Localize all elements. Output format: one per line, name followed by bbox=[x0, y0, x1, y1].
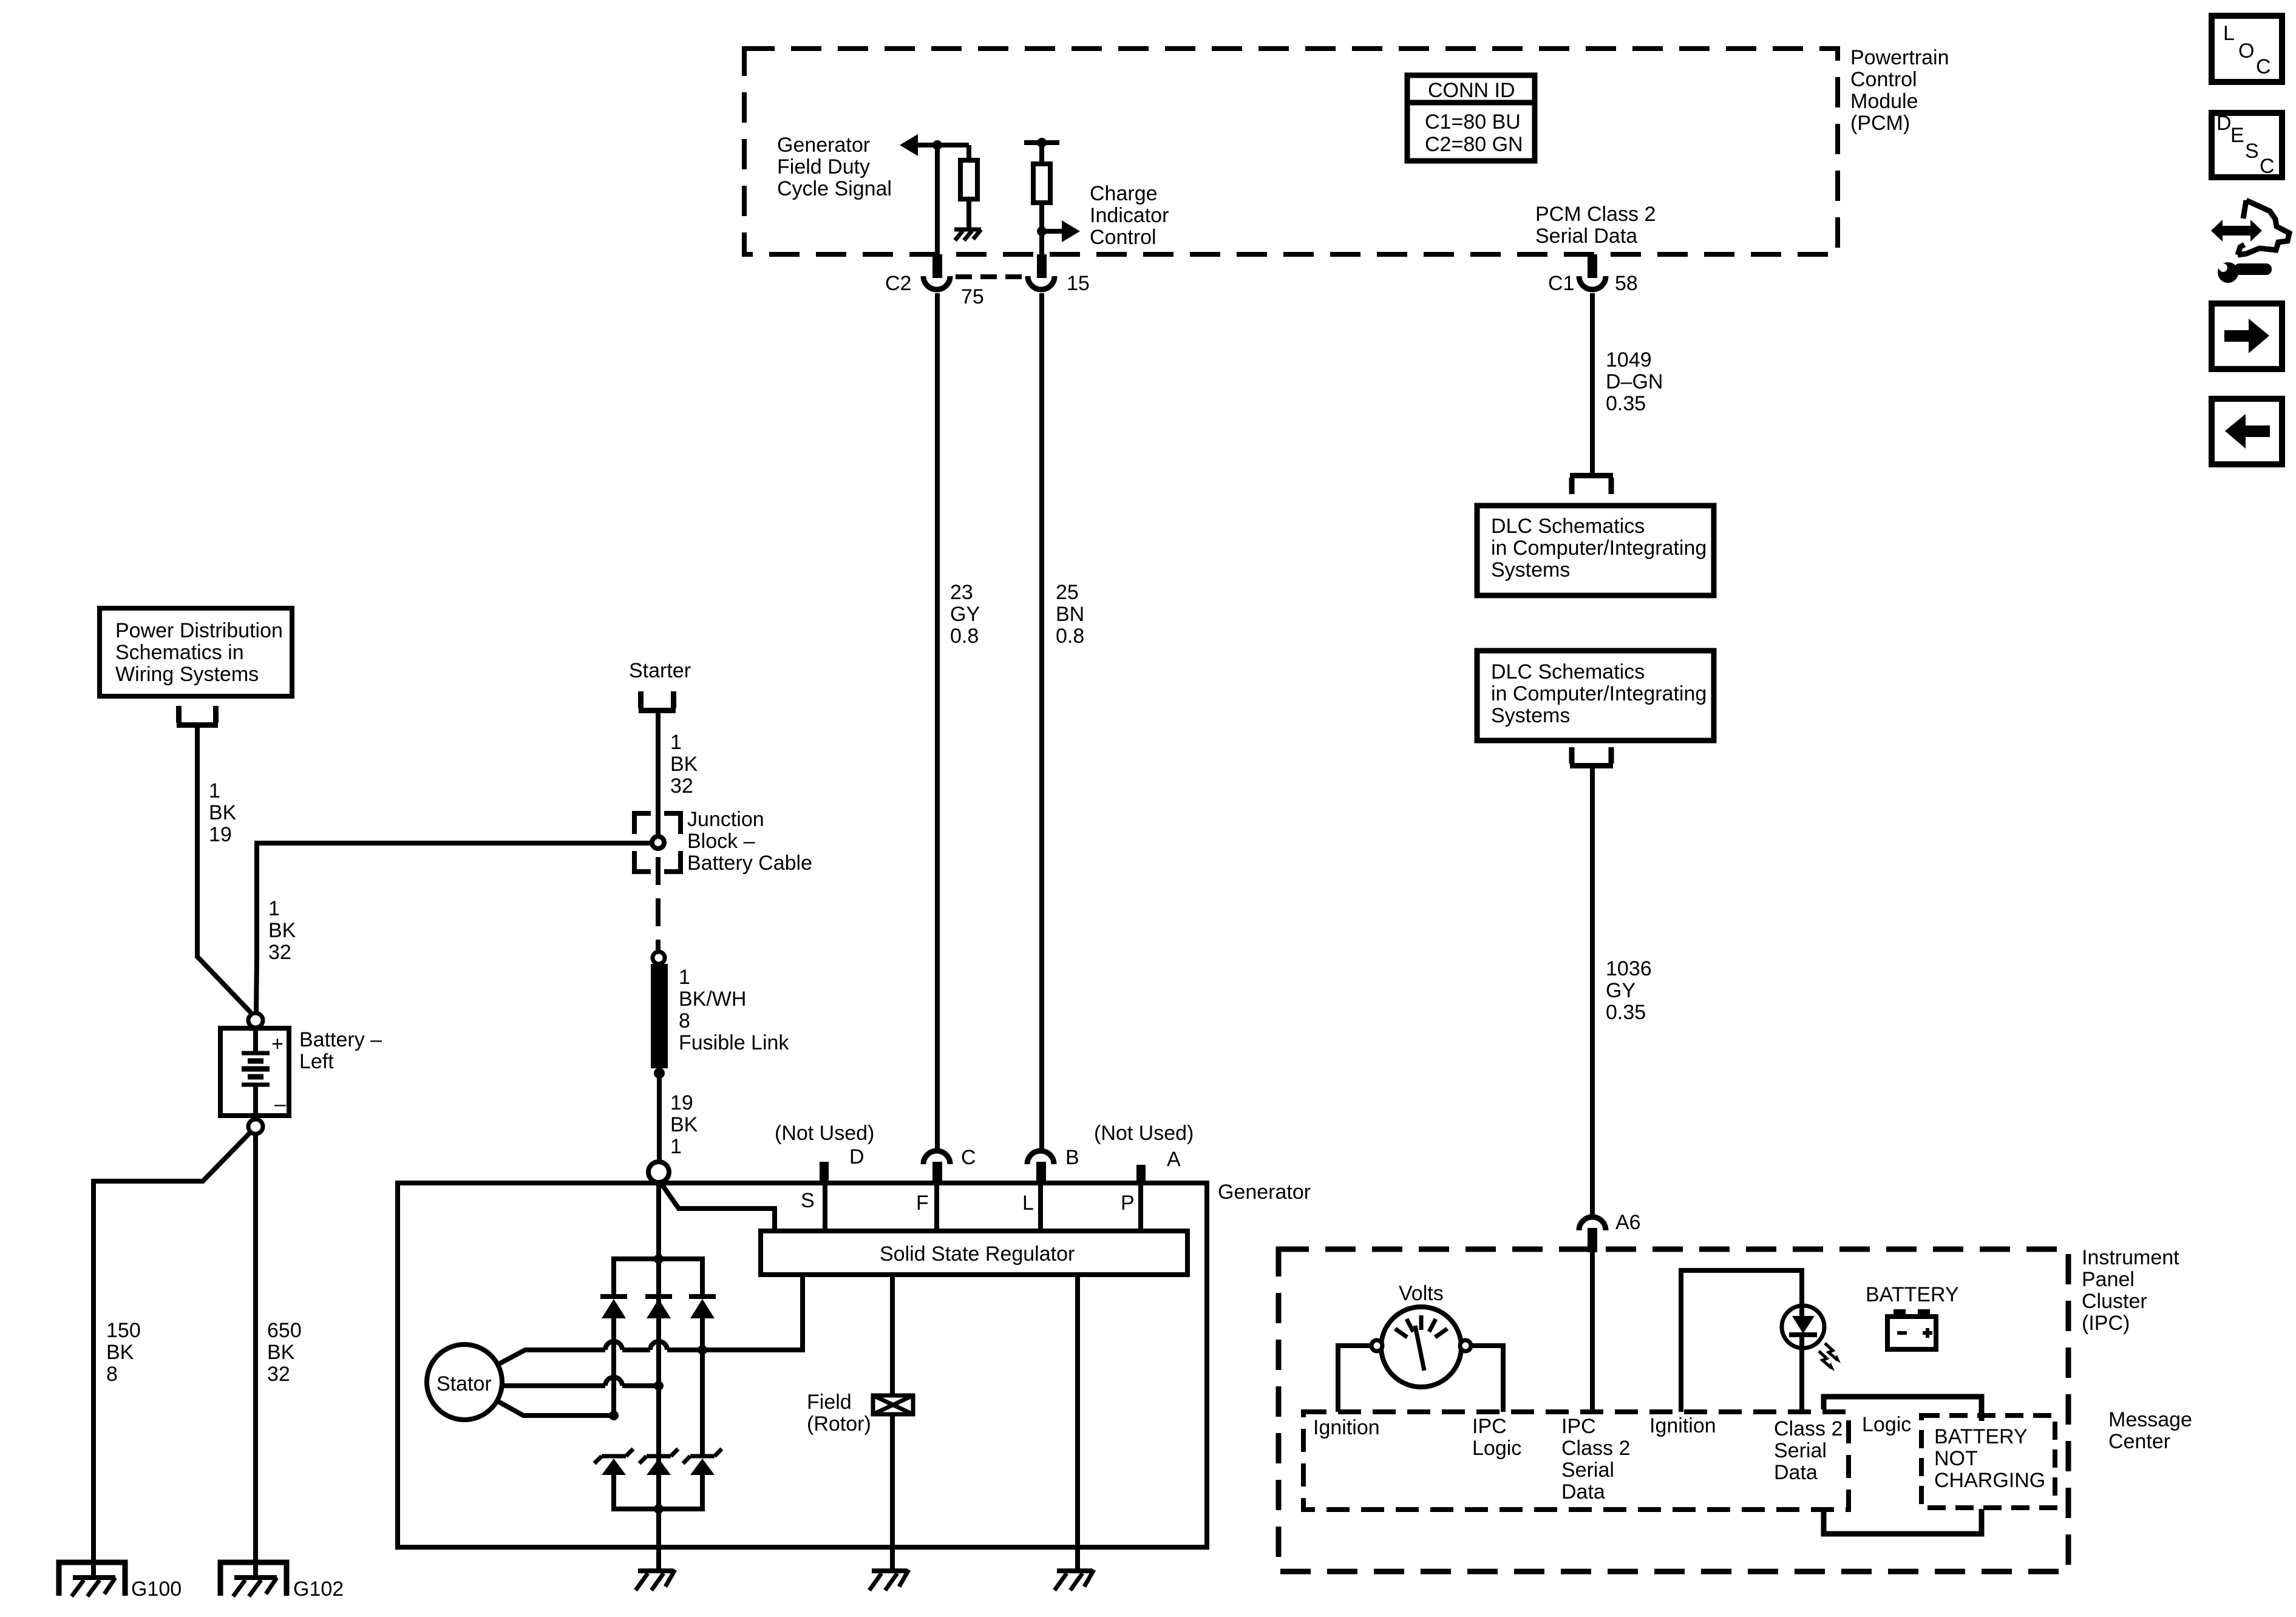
svg-text:(IPC): (IPC) bbox=[2082, 1312, 2130, 1335]
stator bbox=[427, 1344, 502, 1420]
svg-text:Center: Center bbox=[2108, 1430, 2170, 1453]
connector A6 (IPC) bbox=[1579, 1217, 1606, 1252]
dashed connector link C2-15 bbox=[956, 274, 1025, 279]
svg-text:(PCM): (PCM) bbox=[1850, 112, 1910, 135]
wire 650 BK 32 bbox=[253, 1134, 258, 1576]
icon vehicle-wrench bbox=[2211, 200, 2289, 283]
svg-text:75: 75 bbox=[961, 285, 984, 308]
svg-text:23: 23 bbox=[950, 581, 973, 604]
svg-text:D: D bbox=[2216, 112, 2232, 135]
svg-text:Charge: Charge bbox=[1090, 182, 1158, 205]
ground G102 bbox=[220, 1562, 344, 1601]
wire 150 BK 8 bbox=[93, 1132, 251, 1576]
svg-text:Cycle Signal: Cycle Signal bbox=[777, 177, 892, 200]
fusible link bbox=[651, 964, 668, 1068]
DLC Schematics box 1 bbox=[1477, 506, 1714, 595]
wire LED to Class 2 Serial Data bbox=[1799, 1348, 1804, 1412]
svg-text:CONN ID: CONN ID bbox=[1428, 79, 1515, 102]
off-page bracket (power distribution) bbox=[177, 706, 218, 725]
pin D (not used) bbox=[820, 1162, 829, 1183]
wire A6 to sub-box bbox=[1590, 1252, 1595, 1412]
label Message Center bbox=[2108, 1408, 2192, 1453]
svg-text:Starter: Starter bbox=[629, 659, 691, 682]
svg-text:1: 1 bbox=[679, 966, 690, 989]
svg-text:Systems: Systems bbox=[1491, 558, 1570, 581]
svg-text:C2: C2 bbox=[885, 272, 911, 295]
svg-text:BK: BK bbox=[268, 919, 296, 942]
CONN ID table bbox=[1407, 75, 1535, 161]
PCM dashed box bbox=[744, 49, 1838, 254]
svg-text:O: O bbox=[2238, 39, 2254, 63]
label Battery - Left bbox=[299, 1028, 382, 1073]
svg-text:Ignition: Ignition bbox=[1313, 1416, 1380, 1439]
DLC Schematics box 2 bbox=[1477, 651, 1714, 741]
connector pin 15 bbox=[1028, 254, 1055, 290]
resistor R-field bbox=[960, 160, 977, 199]
svg-text:(Rotor): (Rotor) bbox=[807, 1412, 871, 1436]
arrow out (Generator Field Duty Cycle Signal) bbox=[900, 134, 969, 156]
svg-text:E: E bbox=[2230, 124, 2244, 147]
svg-text:Wiring Systems: Wiring Systems bbox=[115, 663, 259, 686]
svg-text:G100: G100 bbox=[131, 1578, 182, 1601]
svg-text:Instrument: Instrument bbox=[2082, 1246, 2179, 1269]
svg-text:Systems: Systems bbox=[1491, 704, 1570, 727]
off-page bracket into DLC box 1 bbox=[1570, 476, 1613, 495]
svg-text:BK/WH: BK/WH bbox=[679, 988, 746, 1011]
wire battery+ to junction block bbox=[257, 841, 652, 846]
svg-text:Power Distribution: Power Distribution bbox=[115, 619, 283, 642]
svg-text:Stator: Stator bbox=[436, 1372, 492, 1395]
arrow out (Charge Indicator Control) bbox=[1042, 220, 1080, 242]
svg-text:1: 1 bbox=[670, 731, 682, 754]
svg-text:Generator: Generator bbox=[1218, 1181, 1311, 1204]
svg-text:A6: A6 bbox=[1615, 1211, 1641, 1234]
svg-text:BK: BK bbox=[106, 1341, 134, 1364]
connector C1 pin 58 bbox=[1579, 254, 1606, 290]
svg-text:DLC Schematics: DLC Schematics bbox=[1491, 660, 1645, 683]
svg-text:Panel: Panel bbox=[2082, 1268, 2135, 1291]
svg-text:IPC: IPC bbox=[1561, 1415, 1596, 1438]
node bottom bus junction bbox=[654, 1504, 664, 1514]
wire to ground 1 bbox=[656, 1509, 661, 1572]
svg-text:in Computer/Integrating: in Computer/Integrating bbox=[1491, 682, 1707, 705]
battery icon bbox=[1887, 1309, 1936, 1349]
Generator box bbox=[398, 1183, 1207, 1547]
svg-text:Cluster: Cluster bbox=[2082, 1290, 2147, 1313]
fusible link bottom node bbox=[654, 1068, 665, 1079]
svg-text:in Computer/Integrating: in Computer/Integrating bbox=[1491, 537, 1707, 560]
label Generator Field Duty Cycle Signal bbox=[777, 134, 892, 200]
svg-text:Data: Data bbox=[1561, 1480, 1605, 1503]
terminal F line bbox=[934, 1183, 939, 1231]
svg-text:Data: Data bbox=[1774, 1461, 1818, 1484]
svg-text:C2=80 GN: C2=80 GN bbox=[1425, 133, 1523, 156]
svg-text:Left: Left bbox=[299, 1050, 334, 1073]
connector C2 pin 75 bbox=[923, 254, 950, 290]
volt gauge bbox=[1371, 1307, 1471, 1387]
IPC label bbox=[2082, 1246, 2179, 1335]
B+ sense wire to regulator bbox=[662, 1184, 775, 1231]
off-page bracket out of DLC box 2 bbox=[1570, 747, 1613, 766]
wire C2-75 inside PCM bbox=[935, 145, 940, 258]
IPC dashed box bbox=[1279, 1249, 2068, 1571]
svg-text:19: 19 bbox=[670, 1091, 693, 1114]
svg-text:S: S bbox=[2245, 140, 2259, 163]
svg-text:P: P bbox=[1121, 1192, 1135, 1215]
svg-text:Field: Field bbox=[807, 1391, 852, 1414]
svg-text:Solid State Regulator: Solid State Regulator bbox=[880, 1242, 1075, 1266]
label Charge Indicator Control bbox=[1090, 182, 1169, 249]
diode D1 (upper left) bbox=[600, 1297, 627, 1415]
label PCM Class 2 Serial Data bbox=[1535, 203, 1656, 248]
battery box bbox=[220, 1028, 289, 1116]
stator phase 2 wire bbox=[502, 1377, 664, 1391]
label IPC Logic bbox=[1472, 1415, 1521, 1460]
svg-text:8: 8 bbox=[106, 1363, 118, 1386]
svg-text:D–GN: D–GN bbox=[1606, 370, 1663, 393]
svg-text:58: 58 bbox=[1615, 272, 1638, 295]
svg-text:PCM Class 2: PCM Class 2 bbox=[1535, 203, 1656, 226]
svg-text:C1=80 BU: C1=80 BU bbox=[1425, 110, 1521, 134]
svg-text:Field Duty: Field Duty bbox=[777, 155, 870, 178]
fusible link top circle bbox=[653, 952, 665, 964]
connector C (generator F) bbox=[923, 1151, 950, 1183]
wire gauge right to IPC Logic bbox=[1471, 1346, 1503, 1412]
svg-text:D: D bbox=[849, 1145, 864, 1168]
svg-text:BK: BK bbox=[209, 801, 237, 824]
label Junction Block - Battery Cable bbox=[687, 808, 812, 875]
icon DESC box bbox=[2212, 112, 2282, 178]
svg-text:Class 2: Class 2 bbox=[1774, 1417, 1843, 1440]
svg-text:Serial: Serial bbox=[1774, 1439, 1827, 1462]
svg-text:Junction: Junction bbox=[687, 808, 764, 831]
svg-text:Ignition: Ignition bbox=[1649, 1414, 1716, 1437]
svg-text:0.8: 0.8 bbox=[950, 625, 979, 648]
label Field (Rotor) bbox=[807, 1391, 871, 1436]
field rotor winding symbol bbox=[873, 1275, 913, 1572]
svg-text:(Not Used): (Not Used) bbox=[775, 1122, 874, 1145]
wire 1 BK 19 bbox=[197, 728, 251, 1012]
node junction on C2-75 wire bbox=[932, 140, 942, 150]
wire 23 GY 0.8 bbox=[935, 293, 940, 1150]
svg-text:BK: BK bbox=[670, 1113, 698, 1136]
svg-text:Serial: Serial bbox=[1561, 1459, 1614, 1482]
wire gauge left to Ignition bbox=[1338, 1346, 1371, 1412]
B+ output terminal circle bbox=[648, 1162, 669, 1182]
BATTERY NOT CHARGING message box bbox=[1921, 1415, 2055, 1508]
ground G100 bbox=[59, 1562, 182, 1601]
svg-text:25: 25 bbox=[1056, 581, 1079, 604]
svg-text:0.35: 0.35 bbox=[1606, 392, 1646, 415]
svg-text:Module: Module bbox=[1850, 90, 1918, 113]
svg-text:32: 32 bbox=[268, 941, 291, 964]
wire 25 BN 0.8 bbox=[1039, 293, 1044, 1150]
junction block corner brackets bbox=[634, 813, 681, 872]
svg-text:B: B bbox=[1065, 1146, 1079, 1169]
svg-text:C: C bbox=[961, 1146, 976, 1169]
svg-text:150: 150 bbox=[106, 1319, 141, 1342]
stator phase 3 wire bbox=[497, 1401, 619, 1420]
svg-text:8: 8 bbox=[679, 1009, 690, 1032]
svg-text:L: L bbox=[2223, 22, 2235, 45]
zener Z1 (lower left) bbox=[594, 1449, 633, 1509]
off-page bracket (starter) bbox=[639, 691, 676, 711]
svg-text:15: 15 bbox=[1067, 272, 1090, 295]
Logic box bbox=[1824, 1397, 1982, 1534]
pin A (not used) bbox=[1136, 1165, 1146, 1183]
zener Z3 (lower right) bbox=[683, 1449, 722, 1509]
node on rail bbox=[1037, 138, 1047, 147]
wire 1036 GY 0.35 bbox=[1590, 768, 1595, 1215]
IPC inner dashed sub-box bbox=[1303, 1412, 1849, 1510]
svg-text:1: 1 bbox=[268, 897, 280, 920]
terminal L line bbox=[1038, 1183, 1043, 1231]
svg-text:Message: Message bbox=[2108, 1408, 2192, 1431]
LED emission arrows bbox=[1819, 1343, 1841, 1371]
svg-text:Class 2: Class 2 bbox=[1561, 1437, 1630, 1460]
Power Distribution box bbox=[100, 608, 292, 696]
svg-text:Logic: Logic bbox=[1862, 1413, 1911, 1436]
svg-text:BK: BK bbox=[670, 753, 698, 776]
rectifier top bus bbox=[614, 1259, 702, 1294]
dashed wire below junction block bbox=[656, 849, 661, 952]
resistor R-lamp lead bbox=[1039, 143, 1044, 164]
svg-text:0.8: 0.8 bbox=[1056, 625, 1084, 648]
svg-text:Schematics in: Schematics in bbox=[115, 641, 244, 664]
svg-text:A: A bbox=[1167, 1148, 1181, 1171]
svg-text:(Not Used): (Not Used) bbox=[1094, 1122, 1194, 1145]
connector B (generator L) bbox=[1027, 1151, 1054, 1183]
icon right-arrow box bbox=[2212, 303, 2282, 369]
rectifier bottom bus bbox=[614, 1475, 702, 1509]
svg-text:BN: BN bbox=[1056, 603, 1084, 626]
zener Z2 (lower mid) bbox=[639, 1449, 678, 1475]
svg-text:BATTERY: BATTERY bbox=[1934, 1425, 2028, 1448]
svg-text:BK: BK bbox=[267, 1341, 295, 1364]
wire 19 BK 1 bbox=[657, 1073, 662, 1161]
ground (regulator) bbox=[1055, 1570, 1094, 1590]
svg-text:19: 19 bbox=[209, 823, 232, 846]
svg-text:Powertrain: Powertrain bbox=[1850, 46, 1949, 69]
svg-text:NOT: NOT bbox=[1934, 1447, 1978, 1470]
node charge indicator bbox=[1037, 226, 1047, 236]
svg-text:C1: C1 bbox=[1548, 272, 1574, 295]
wire 1 BK 32 (battery+) bbox=[254, 841, 259, 957]
stator phase 1 wire bbox=[498, 1275, 803, 1364]
diode D2 (upper mid) bbox=[645, 1297, 672, 1318]
svg-text:Battery –: Battery – bbox=[299, 1028, 382, 1051]
resistor R-lamp bbox=[1033, 164, 1050, 203]
ground (PCM internal) bbox=[954, 229, 981, 240]
svg-text:Fusible Link: Fusible Link bbox=[679, 1031, 789, 1054]
icon LOC box bbox=[2212, 16, 2282, 82]
ground (field) bbox=[869, 1570, 909, 1590]
svg-text:Control: Control bbox=[1090, 226, 1156, 249]
svg-text:CHARGING: CHARGING bbox=[1934, 1469, 2045, 1492]
ground (generator main) bbox=[636, 1570, 675, 1590]
svg-text:C: C bbox=[2256, 55, 2271, 78]
svg-text:Indicator: Indicator bbox=[1090, 204, 1169, 227]
svg-text:G102: G102 bbox=[293, 1578, 344, 1601]
battery cell symbol bbox=[242, 1028, 286, 1116]
svg-text:Battery Cable: Battery Cable bbox=[687, 852, 812, 875]
svg-text:GY: GY bbox=[1606, 979, 1635, 1002]
svg-text:IPC: IPC bbox=[1472, 1415, 1507, 1438]
terminal P line bbox=[1138, 1183, 1143, 1231]
svg-text:F: F bbox=[916, 1192, 929, 1215]
svg-text:Generator: Generator bbox=[777, 134, 870, 157]
svg-text:BATTERY: BATTERY bbox=[1866, 1283, 1959, 1306]
LED charge indicator bbox=[1782, 1306, 1824, 1348]
svg-text:Serial Data: Serial Data bbox=[1535, 225, 1637, 248]
svg-text:C: C bbox=[2260, 155, 2275, 178]
svg-text:650: 650 bbox=[267, 1319, 302, 1342]
svg-text:+: + bbox=[271, 1032, 284, 1056]
svg-text:GY: GY bbox=[950, 603, 980, 626]
svg-text:1036: 1036 bbox=[1606, 957, 1652, 980]
battery - terminal circle bbox=[248, 1119, 263, 1134]
svg-text:0.35: 0.35 bbox=[1606, 1001, 1646, 1024]
rail stub (charge indicator branch) bbox=[1024, 140, 1059, 145]
terminal S line bbox=[823, 1183, 827, 1231]
resistor R-field lead bbox=[966, 145, 971, 160]
wire ignition 2 bbox=[1681, 1270, 1802, 1412]
battery + terminal circle bbox=[248, 1013, 263, 1028]
svg-text:–: – bbox=[274, 1093, 286, 1116]
svg-text:L: L bbox=[1022, 1192, 1034, 1215]
wire 1 BK 32 (starter) bbox=[656, 713, 661, 836]
svg-text:Block –: Block – bbox=[687, 830, 755, 853]
svg-text:DLC Schematics: DLC Schematics bbox=[1491, 515, 1645, 538]
svg-text:Logic: Logic bbox=[1472, 1437, 1521, 1460]
svg-text:Volts: Volts bbox=[1399, 1282, 1444, 1305]
wire regulator to ground 3 bbox=[1075, 1275, 1080, 1572]
svg-text:32: 32 bbox=[670, 775, 693, 798]
junction block node circle bbox=[652, 836, 664, 849]
B+ vertical wire bbox=[656, 1182, 661, 1509]
PCM label bbox=[1850, 46, 1949, 135]
svg-text:32: 32 bbox=[267, 1363, 290, 1386]
svg-text:1049: 1049 bbox=[1606, 348, 1652, 371]
Solid State Regulator box bbox=[761, 1231, 1187, 1275]
label Class 2 Serial Data bbox=[1774, 1417, 1843, 1484]
svg-text:Control: Control bbox=[1850, 68, 1917, 91]
svg-text:S: S bbox=[801, 1189, 815, 1212]
icon left-arrow box bbox=[2212, 399, 2282, 464]
wire 1049 D-GN 0.35 bbox=[1590, 293, 1595, 473]
svg-text:1: 1 bbox=[670, 1135, 682, 1158]
label IPC Class 2 Serial Data bbox=[1561, 1415, 1630, 1503]
diode D3 (upper right) bbox=[689, 1297, 716, 1454]
svg-text:1: 1 bbox=[209, 779, 220, 802]
node top bus junction bbox=[654, 1254, 664, 1264]
